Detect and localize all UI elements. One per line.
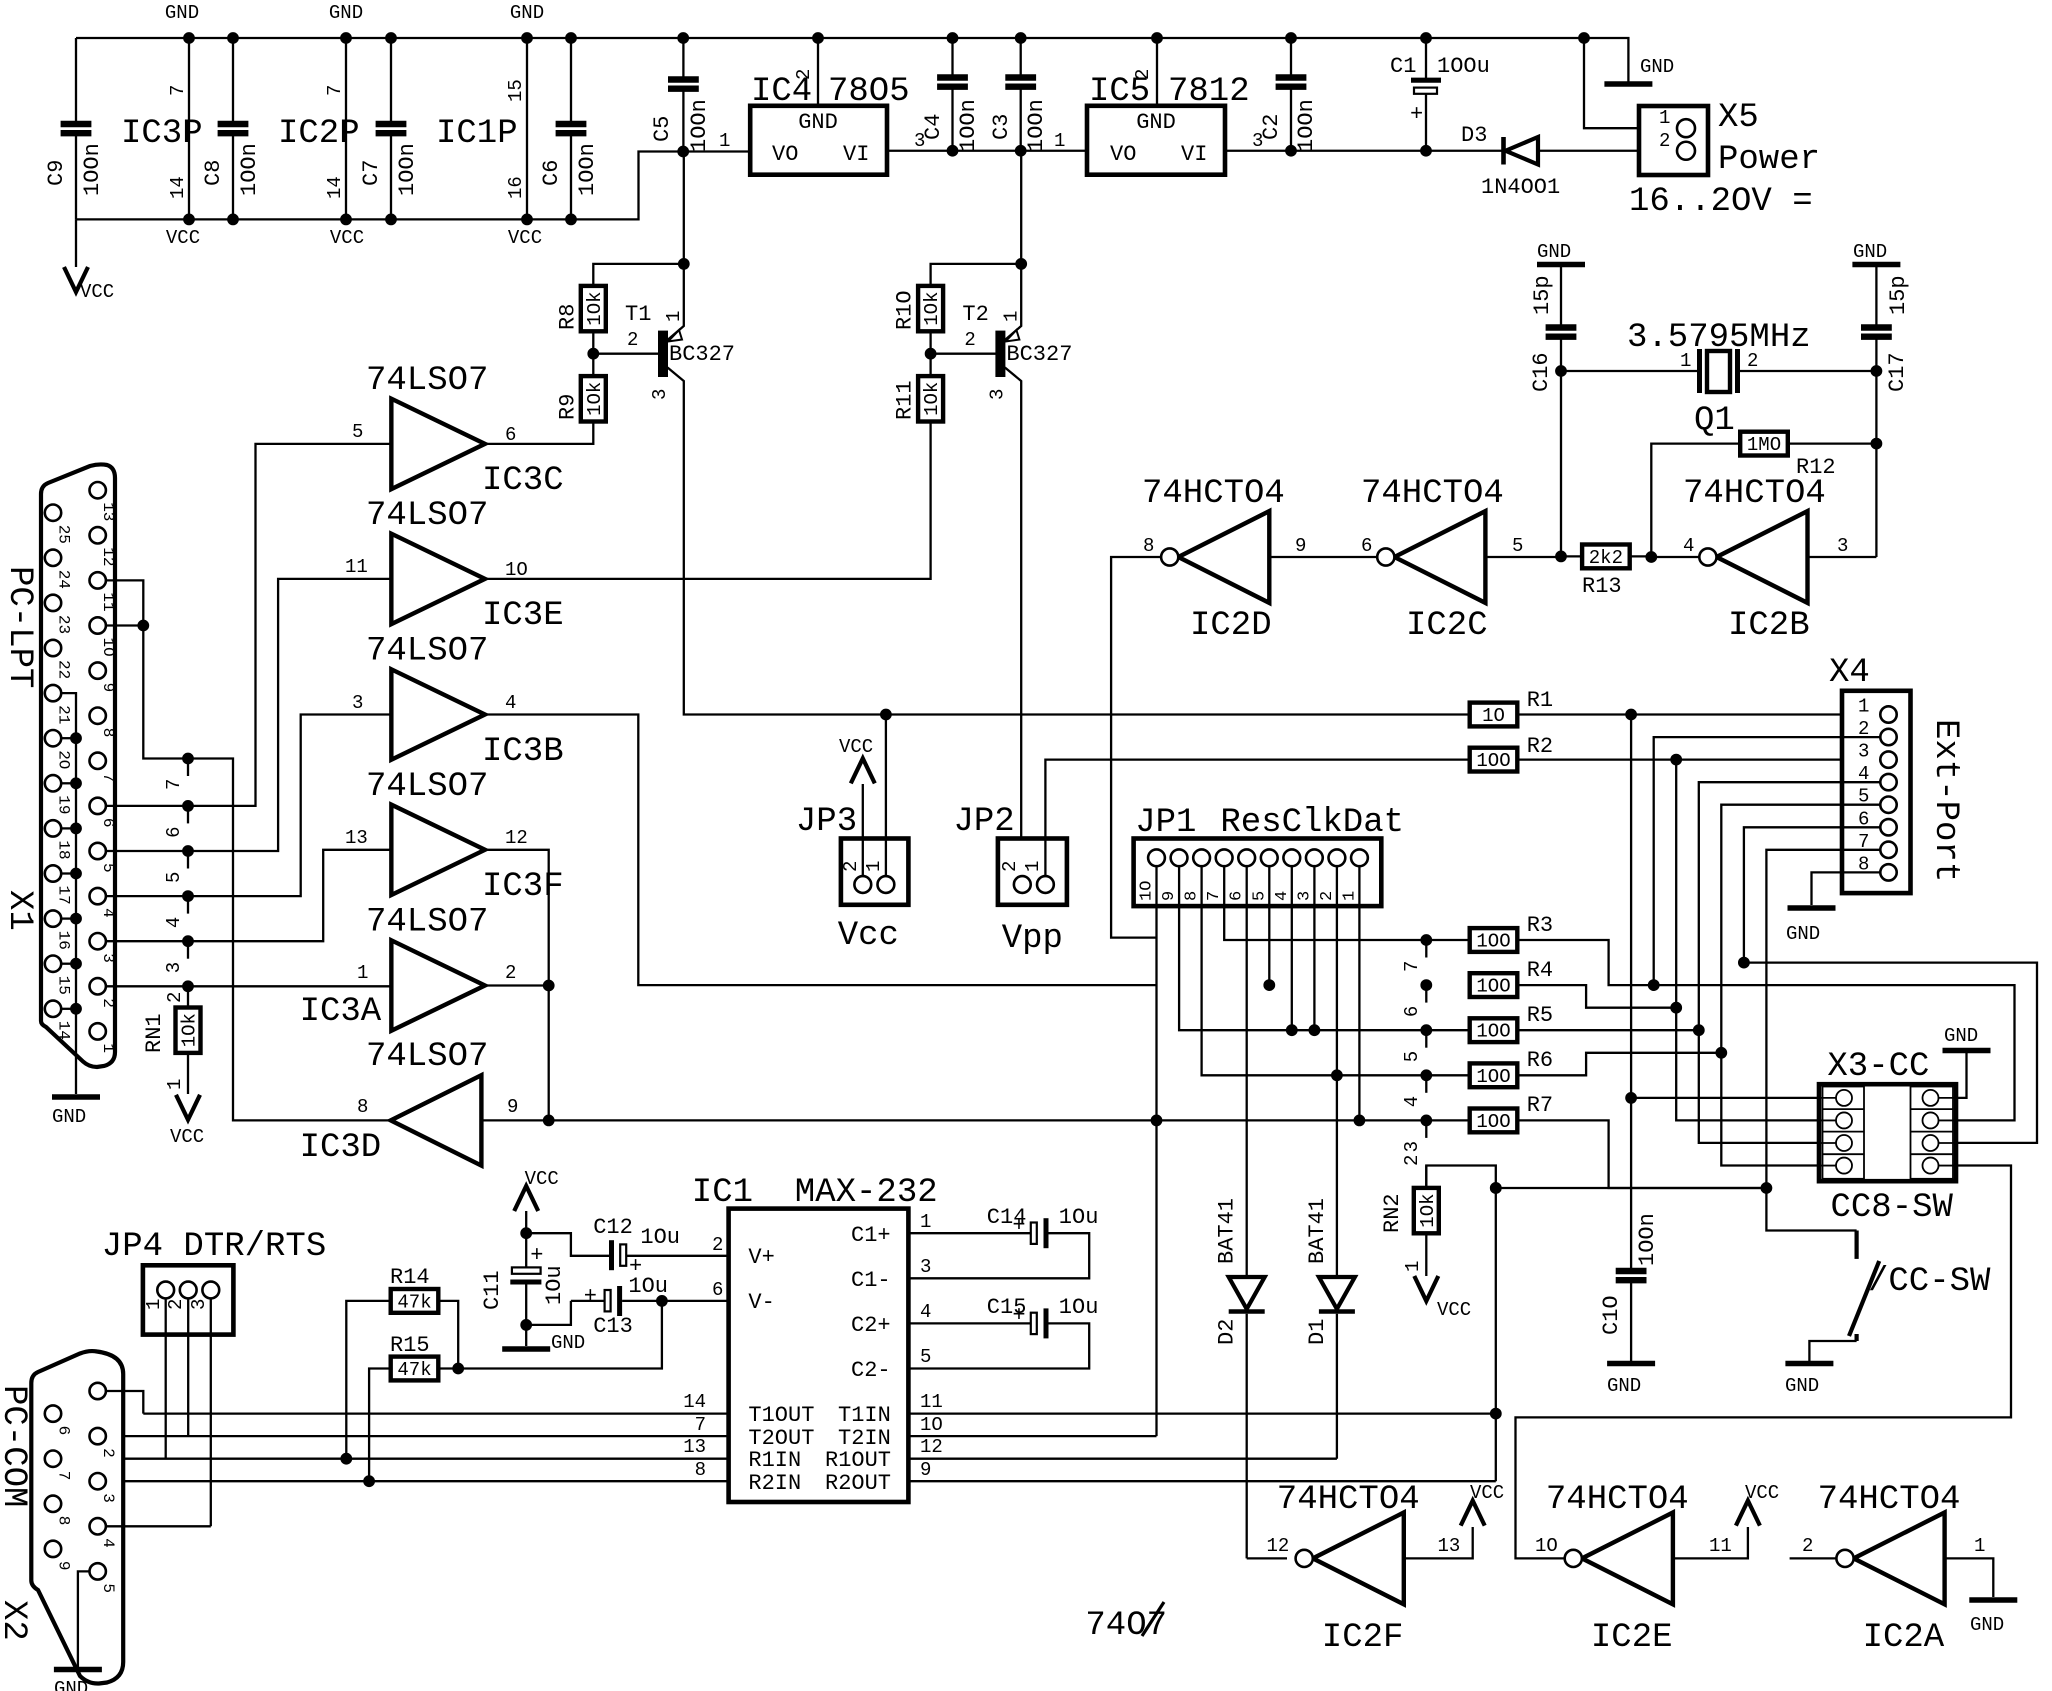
svg-text:13: 13 xyxy=(1438,1535,1461,1557)
svg-text:47k: 47k xyxy=(397,1359,431,1381)
svg-text:C8: C8 xyxy=(201,160,226,186)
svg-text:1: 1 xyxy=(1000,311,1022,322)
svg-text:6: 6 xyxy=(505,424,516,446)
svg-text:1OO: 1OO xyxy=(1476,1021,1510,1043)
jumper JP3 xyxy=(841,839,909,905)
svg-text:R5: R5 xyxy=(1527,1003,1553,1028)
RN2 stub 5 xyxy=(1425,1030,1427,1048)
svg-text:2k2: 2k2 xyxy=(1589,547,1623,569)
svg-text:1MO: 1MO xyxy=(1747,434,1781,456)
wire X1 pin5 row xyxy=(106,579,391,851)
svg-text:8: 8 xyxy=(1183,891,1202,901)
wire base T1 xyxy=(593,353,658,355)
junction xyxy=(1739,957,1750,968)
capacitor C6 xyxy=(570,38,572,219)
svg-text:1OO: 1OO xyxy=(1476,1066,1510,1088)
X1 pin 4 xyxy=(90,888,106,904)
wire IC2P power pin xyxy=(345,38,347,219)
svg-text:4: 4 xyxy=(163,917,185,928)
junction xyxy=(1421,1070,1432,1081)
wire C4-C3 xyxy=(953,150,1021,152)
junction xyxy=(1693,1025,1704,1036)
svg-text:BAT41: BAT41 xyxy=(1215,1198,1240,1264)
wire D3 to X5 pin2 xyxy=(1538,150,1686,152)
svg-text:23: 23 xyxy=(55,615,73,634)
capacitor C14 xyxy=(1031,1218,1046,1248)
diode D3 1N4001 xyxy=(1504,137,1539,165)
capacitor C17 plates xyxy=(1861,328,1892,337)
svg-text:C9: C9 xyxy=(44,160,69,186)
buffer IC3D 74LS07 xyxy=(391,1075,482,1165)
wire IC2C in xyxy=(1485,556,1561,558)
junction xyxy=(522,214,533,225)
wire X1 pin6 row xyxy=(106,444,391,806)
svg-text:5: 5 xyxy=(163,872,185,883)
svg-text:1: 1 xyxy=(1340,891,1359,901)
wire X4.5 xyxy=(1721,805,1880,1166)
svg-text:1Ok: 1Ok xyxy=(584,291,606,325)
wire IC2F in vcc xyxy=(1404,1527,1473,1558)
svg-text:X5: X5 xyxy=(1718,99,1759,137)
junction xyxy=(1648,980,1659,991)
wire RN2 pin1 xyxy=(1425,1233,1427,1276)
RN1 stub 3 xyxy=(187,941,189,959)
svg-text:T1IN: T1IN xyxy=(838,1403,891,1428)
power VCC arrow RN1 xyxy=(176,1095,200,1120)
wire C16 to crystal xyxy=(1560,337,1562,371)
wire X1 pin 18 xyxy=(61,827,76,829)
junction xyxy=(1286,33,1297,44)
svg-text:1: 1 xyxy=(1022,861,1044,872)
wire R15 node to C13 xyxy=(458,1301,662,1369)
X2 pin 3 xyxy=(90,1473,106,1489)
svg-text:C17: C17 xyxy=(1885,352,1910,392)
svg-text:+: + xyxy=(1410,102,1423,127)
wire C10 col xyxy=(1630,715,1632,1272)
svg-text:13: 13 xyxy=(99,502,117,521)
svg-text:1: 1 xyxy=(920,1211,931,1233)
junction xyxy=(71,958,82,969)
IC IC1 MAX-232 xyxy=(729,1209,909,1502)
wire switch row xyxy=(1496,1188,1857,1231)
junction xyxy=(184,214,195,225)
svg-text:C2: C2 xyxy=(1259,114,1284,140)
junction xyxy=(1015,145,1026,156)
ground C17 xyxy=(1852,262,1900,268)
X1 pin 13 xyxy=(90,482,106,498)
junction xyxy=(364,1476,375,1487)
wire X1 pin11 xyxy=(106,580,391,1120)
wire IC2B in xyxy=(1808,556,1877,558)
svg-text:5: 5 xyxy=(99,1583,117,1593)
svg-text:D1: D1 xyxy=(1305,1319,1330,1345)
wire JP4.2 xyxy=(187,1298,189,1436)
wire D1 low xyxy=(1336,1314,1338,1459)
capacitor C9 xyxy=(75,38,77,219)
wire IC3B out xyxy=(485,715,1157,986)
connector X2 PC-COM outline xyxy=(31,1351,123,1683)
wire IC3P power pin xyxy=(188,38,190,219)
wire JP1.1 xyxy=(1358,866,1360,1120)
svg-text:1O: 1O xyxy=(1482,705,1505,727)
svg-text:8: 8 xyxy=(695,1459,706,1481)
junction xyxy=(543,980,554,991)
svg-text:GND: GND xyxy=(1607,1375,1641,1397)
capacitor C2 plates xyxy=(1276,78,1307,87)
svg-text:GND: GND xyxy=(1640,56,1674,78)
svg-text:PC-COM: PC-COM xyxy=(0,1385,32,1507)
svg-text:JP3: JP3 xyxy=(796,803,857,841)
svg-text:74HCTO4: 74HCTO4 xyxy=(1361,475,1504,513)
svg-text:4: 4 xyxy=(99,1538,117,1548)
svg-text:GND: GND xyxy=(510,2,544,24)
junction xyxy=(881,709,892,720)
wire X4.6 xyxy=(1744,827,1880,962)
svg-text:R6: R6 xyxy=(1527,1048,1553,1073)
svg-text:X1: X1 xyxy=(0,890,38,931)
X1 pin 19 xyxy=(45,775,61,791)
resistor R11 10k xyxy=(918,376,943,421)
wire RN2 pin2 xyxy=(1426,1166,1496,1482)
junction xyxy=(925,348,936,359)
svg-text:VI: VI xyxy=(843,142,869,167)
transistor T2 BC327 xyxy=(996,264,1021,430)
resistor R1 10 xyxy=(1470,703,1518,727)
junction xyxy=(1015,33,1026,44)
svg-text:74LSO7: 74LSO7 xyxy=(366,633,488,671)
resistor R7 100 xyxy=(1470,1109,1518,1133)
wire T1 junction to R8 xyxy=(593,264,684,286)
wire switch to gnd xyxy=(1809,1341,1856,1361)
svg-text:7: 7 xyxy=(55,1471,73,1481)
svg-text:C1-: C1- xyxy=(851,1268,891,1293)
svg-text:IC3P: IC3P xyxy=(121,115,203,153)
svg-text:2: 2 xyxy=(964,329,975,351)
wire X1 pin 17 xyxy=(61,872,76,874)
X2 pin 6 xyxy=(45,1405,61,1421)
svg-text:12: 12 xyxy=(1267,1535,1290,1557)
wire JP2 pin1 Vpp row xyxy=(1045,760,1469,876)
wire GND top rail xyxy=(76,38,1628,84)
wire JP1.8 xyxy=(1202,866,1470,1075)
transistor T1 BC327 xyxy=(659,264,684,430)
svg-text:2: 2 xyxy=(1401,1155,1423,1166)
ground C11 xyxy=(502,1346,550,1352)
X1 pin 2 xyxy=(90,978,106,994)
svg-text:74HCTO4: 74HCTO4 xyxy=(1277,1481,1420,1519)
svg-text:IC2F: IC2F xyxy=(1322,1619,1404,1657)
wire R12 right xyxy=(1788,442,1877,444)
ground X3 xyxy=(1943,1048,1991,1054)
svg-text:R15: R15 xyxy=(390,1333,430,1358)
X1 pin 17 xyxy=(45,865,61,881)
svg-text:3: 3 xyxy=(188,1299,210,1310)
X2 pin 1 xyxy=(90,1383,106,1399)
svg-text:25: 25 xyxy=(55,525,73,544)
junction xyxy=(71,778,82,789)
junction xyxy=(1626,1093,1637,1104)
wire C2 to C1 xyxy=(1291,150,1426,152)
svg-text:C11: C11 xyxy=(480,1270,505,1310)
svg-text:1OOu: 1OOu xyxy=(1437,54,1490,79)
wire IC5 pin3 xyxy=(1225,150,1291,152)
wire IC3A/IC3D node xyxy=(548,986,550,1121)
junction xyxy=(1354,1115,1365,1126)
svg-text:2: 2 xyxy=(165,1299,187,1310)
wire X4.4 xyxy=(1699,782,1880,1143)
svg-text:C6: C6 xyxy=(539,160,564,186)
X1 pin 6 xyxy=(90,798,106,814)
svg-text:74LSO7: 74LSO7 xyxy=(366,768,488,806)
junction xyxy=(1151,1115,1162,1126)
junction xyxy=(1671,754,1682,765)
inverter IC2A 74HCT04 xyxy=(1836,1513,1944,1605)
svg-text:16: 16 xyxy=(55,931,73,950)
svg-text:GND: GND xyxy=(551,1332,585,1354)
svg-text:12: 12 xyxy=(505,827,528,849)
wire T2IN row xyxy=(908,1435,1156,1437)
junction xyxy=(813,33,824,44)
wire R3 right xyxy=(1517,940,2014,1120)
svg-text:1OO: 1OO xyxy=(1476,750,1510,772)
jumper JP4 xyxy=(143,1265,234,1334)
junction xyxy=(657,1296,668,1307)
svg-text:IC1P: IC1P xyxy=(436,115,518,153)
wire IC2E in xyxy=(1516,1166,2012,1559)
junction xyxy=(1556,551,1567,562)
wire X4.3 vert xyxy=(1676,760,1819,1121)
wire RN1 pin1 xyxy=(187,1053,189,1094)
wire X1 pin 15 xyxy=(61,963,76,965)
wire R8 to base node xyxy=(592,331,594,376)
svg-text:GND: GND xyxy=(1785,1375,1819,1397)
svg-text:5: 5 xyxy=(920,1346,931,1368)
svg-text:R2: R2 xyxy=(1527,734,1553,759)
capacitor C6 plates xyxy=(556,124,587,133)
wire base T2 xyxy=(931,353,996,355)
resistor network RN1 10k xyxy=(176,1008,201,1053)
wire IC2E out vcc xyxy=(1673,1527,1748,1558)
RN2 stub 3 xyxy=(1425,1120,1427,1138)
wire IC3A out xyxy=(485,984,549,986)
svg-text:16..2OV =: 16..2OV = xyxy=(1629,183,1813,221)
X1 pin 23 xyxy=(45,595,61,611)
svg-text:X4: X4 xyxy=(1829,654,1870,692)
junction xyxy=(386,33,397,44)
wire X1 pin10 xyxy=(106,624,143,626)
power VCC arrow IC2F xyxy=(1461,1501,1485,1526)
svg-text:13: 13 xyxy=(345,827,368,849)
wire X4.2 xyxy=(1654,737,1880,985)
wire R1 row left xyxy=(886,713,1470,715)
X1 pin 10 xyxy=(90,617,106,633)
wire R2 row right xyxy=(1517,758,1888,760)
resistor R13 2k2 xyxy=(1582,545,1630,569)
svg-text:1OOn: 1OOn xyxy=(956,99,981,152)
svg-text:C7: C7 xyxy=(359,160,384,186)
svg-text:6: 6 xyxy=(712,1279,723,1301)
capacitor C16 plates xyxy=(1546,328,1577,337)
wire IC3F out xyxy=(485,850,549,986)
svg-text:RN1: RN1 xyxy=(142,1013,167,1053)
power VCC arrow JP3 xyxy=(851,758,875,783)
svg-text:BAT41: BAT41 xyxy=(1305,1198,1330,1264)
X1 pin 8 xyxy=(90,708,106,724)
svg-text:IC3B: IC3B xyxy=(482,733,564,771)
IC4 7805 regulator xyxy=(750,106,887,175)
wire X2.1 xyxy=(106,1391,143,1414)
wire C3 to IC5 pin1 xyxy=(1021,150,1087,152)
svg-text:6: 6 xyxy=(1401,1006,1423,1017)
junction xyxy=(1761,1183,1772,1194)
ground CC-SW xyxy=(1785,1361,1833,1367)
svg-text:GND: GND xyxy=(1136,110,1176,135)
connector X3-CC CC8-SW xyxy=(1819,1084,1956,1181)
svg-text:5: 5 xyxy=(1250,891,1269,901)
svg-text:15: 15 xyxy=(55,976,73,995)
junction xyxy=(947,33,958,44)
svg-text:C3: C3 xyxy=(989,114,1014,140)
svg-text:IC2A: IC2A xyxy=(1863,1619,1945,1657)
svg-text:GND: GND xyxy=(1970,1614,2004,1636)
svg-text:3: 3 xyxy=(1858,741,1869,763)
svg-text:R2IN: R2IN xyxy=(748,1471,801,1496)
svg-text:11: 11 xyxy=(1709,1535,1732,1557)
junction xyxy=(1490,1183,1501,1194)
svg-text:1: 1 xyxy=(1054,130,1065,152)
svg-text:15: 15 xyxy=(505,79,527,102)
svg-text:VO: VO xyxy=(772,142,798,167)
ground X2 xyxy=(54,1670,102,1691)
svg-text:JP4 DTR/RTS: JP4 DTR/RTS xyxy=(102,1228,326,1266)
svg-text:1: 1 xyxy=(1974,1535,1985,1557)
svg-text:14: 14 xyxy=(683,1391,706,1413)
junction xyxy=(183,801,194,812)
junction xyxy=(1421,1025,1432,1036)
svg-text:Power: Power xyxy=(1718,141,1820,179)
svg-text:+: + xyxy=(530,1243,543,1268)
X1 pin 7 xyxy=(90,753,106,769)
svg-text:8: 8 xyxy=(357,1096,368,1118)
capacitor C8 xyxy=(232,38,234,219)
capacitor C10 plates xyxy=(1616,1271,1647,1280)
junction xyxy=(183,846,194,857)
svg-text:GND: GND xyxy=(1786,923,1820,945)
wire IC2B out xyxy=(1651,556,1699,558)
wire JP4.3 xyxy=(210,1298,212,1526)
resistor R5 100 xyxy=(1470,1018,1518,1042)
svg-text:3: 3 xyxy=(163,962,185,973)
wire rail to X5 pin1 xyxy=(1584,38,1686,128)
capacitor C2 xyxy=(1290,38,1292,151)
capacitor C11 xyxy=(510,1267,541,1282)
svg-text:IC2P: IC2P xyxy=(278,115,360,153)
svg-text:74HCTO4: 74HCTO4 xyxy=(1546,1481,1689,1519)
svg-text:R1: R1 xyxy=(1527,688,1553,713)
wire V+ row xyxy=(526,1233,611,1256)
wire X4.8 gnd xyxy=(1812,872,1881,905)
resistor R4 100 xyxy=(1470,973,1518,997)
wire R11 to IC3E out xyxy=(485,422,931,579)
svg-text:Vcc: Vcc xyxy=(838,917,899,955)
svg-text:74O7: 74O7 xyxy=(1085,1607,1167,1645)
svg-text:74HCTO4: 74HCTO4 xyxy=(1818,1481,1961,1519)
X1 pin 21 xyxy=(45,685,61,701)
svg-text:1OOn: 1OOn xyxy=(1635,1213,1660,1266)
X1 pin 14 xyxy=(45,1001,61,1017)
svg-text:78O5: 78O5 xyxy=(828,73,910,111)
junction xyxy=(522,33,533,44)
X1 pin 12 xyxy=(90,527,106,543)
RN1 stub 5 xyxy=(187,851,189,869)
wire C17 down xyxy=(1875,337,1877,557)
wire T1 collector xyxy=(684,430,886,715)
junction xyxy=(1646,552,1657,563)
svg-text:7: 7 xyxy=(99,773,117,783)
svg-text:9: 9 xyxy=(1295,535,1306,557)
svg-text:3: 3 xyxy=(649,389,671,400)
wire IC2D out xyxy=(1111,557,1161,938)
wire C1+ row xyxy=(908,1232,1033,1234)
svg-text:IC3D: IC3D xyxy=(300,1129,382,1167)
wire n41 row xyxy=(1744,963,2037,1143)
capacitor C12 xyxy=(612,1240,627,1270)
connector X1 PC-LPT outline xyxy=(41,464,115,1067)
wire IC2A in stub xyxy=(1790,1557,1837,1559)
svg-text:5: 5 xyxy=(352,421,363,443)
svg-text:4: 4 xyxy=(505,692,516,714)
svg-text:9: 9 xyxy=(99,683,117,693)
svg-text:4: 4 xyxy=(920,1301,931,1323)
wire VCC to C11 xyxy=(525,1211,527,1267)
wire X1 pin2 row xyxy=(106,985,391,987)
X2 pin 8 xyxy=(45,1496,61,1512)
svg-text:R3: R3 xyxy=(1527,913,1553,938)
svg-text:9: 9 xyxy=(507,1096,518,1118)
X1 pin 3 xyxy=(90,933,106,949)
buffer IC3C 74LS07 xyxy=(391,399,485,489)
wire V- row xyxy=(662,1300,729,1302)
svg-text:R11: R11 xyxy=(893,380,918,420)
svg-text:12: 12 xyxy=(920,1436,943,1458)
junction xyxy=(543,1115,554,1126)
RN1 stub 7 xyxy=(187,759,189,777)
wire C13 jog xyxy=(526,1301,571,1325)
capacitor C4 plates xyxy=(937,78,968,87)
junction xyxy=(1716,1047,1727,1058)
junction xyxy=(566,33,577,44)
svg-text:IC3F: IC3F xyxy=(482,868,564,906)
diode D1 BAT41 xyxy=(1319,1277,1355,1312)
wire R14 right xyxy=(438,1301,458,1369)
svg-text:4: 4 xyxy=(1273,891,1292,901)
X1 pin 15 xyxy=(45,956,61,972)
capacitor C4 xyxy=(951,38,953,151)
junction xyxy=(1152,33,1163,44)
resistor R3 100 xyxy=(1470,928,1518,952)
svg-text:1N4OO1: 1N4OO1 xyxy=(1481,175,1560,200)
junction xyxy=(183,753,194,764)
capacitor C5 plates xyxy=(668,80,699,89)
wire T2OUT row xyxy=(106,1435,729,1437)
svg-text:1Ok: 1Ok xyxy=(921,291,943,325)
svg-text:1Ok: 1Ok xyxy=(1417,1193,1439,1227)
svg-text:7: 7 xyxy=(167,85,189,96)
svg-text:8: 8 xyxy=(1143,535,1154,557)
svg-text:7: 7 xyxy=(324,85,346,96)
svg-text:2: 2 xyxy=(99,1448,117,1458)
svg-text:C2+: C2+ xyxy=(851,1313,891,1338)
